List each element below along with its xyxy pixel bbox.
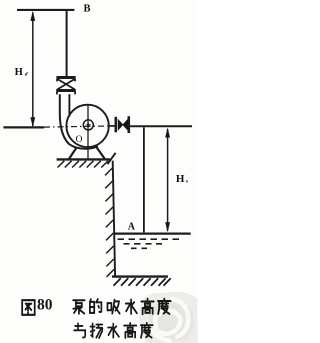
char 水 [126, 300, 137, 314]
svg-text:H: H [15, 67, 23, 78]
plumb line from pump level down to water [143, 127, 145, 232]
discharge pipe lower + elbow into pump volute [60, 94, 98, 149]
char 扬 [90, 323, 102, 338]
svg-text:A: A [128, 221, 136, 232]
wall hatching [105, 168, 114, 277]
dimension Hd vertical line with arrows (left) [30, 11, 35, 127]
char 的 [90, 299, 101, 313]
svg-text:O: O [76, 135, 83, 145]
watermark (faint gray seal bottom-right) [139, 292, 198, 343]
svg-text:d: d [25, 72, 28, 78]
well wall vertical face [113, 161, 115, 277]
char 高 [141, 299, 153, 314]
char 与 [74, 323, 85, 337]
char 高 [124, 323, 136, 338]
well bottom line [112, 275, 168, 277]
caption line 2: 与扬水高度 [74, 323, 153, 338]
gate valve V2 (horizontal, pump outlet right) [116, 116, 129, 133]
caption line 1: 图80 泵的吸水高度 [22, 297, 170, 315]
char 度 [141, 323, 153, 338]
char 泵 [73, 300, 84, 314]
pump hub small circle [83, 120, 93, 130]
platform ground line under pump [57, 158, 110, 160]
horizontal axis line left (pump level) [3, 126, 44, 128]
svg-text:80: 80 [37, 297, 53, 314]
svg-text:H: H [176, 173, 185, 185]
pump U1 casing circle [66, 105, 108, 147]
well bottom hatching [114, 278, 171, 285]
water surface dashes [118, 239, 180, 248]
horizontal level line right of valve [130, 125, 192, 127]
char 度 [158, 299, 171, 314]
char 水 [108, 324, 119, 338]
svg-text:s: s [186, 179, 188, 185]
char 吸 [107, 300, 119, 314]
platform hatching [58, 153, 116, 168]
pump vertical centerline [87, 105, 89, 159]
water surface line (node A level) [115, 232, 191, 234]
dimension Hs vertical line with arrows (right) [165, 128, 170, 233]
svg-text:B: B [84, 4, 91, 15]
gate valve V1 (vertical, on discharge pipe) [56, 78, 76, 95]
pipe stub pump outlet to valve [109, 125, 115, 127]
pump support legs [69, 146, 105, 159]
discharge pipe upper (single line) [66, 11, 68, 77]
node B top discharge level line [17, 9, 74, 11]
char 图 [22, 300, 35, 315]
axis centerline dash-dot through pump [44, 126, 116, 127]
